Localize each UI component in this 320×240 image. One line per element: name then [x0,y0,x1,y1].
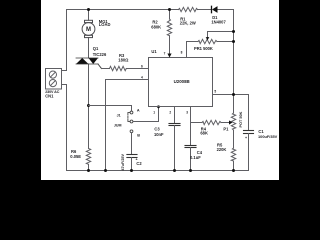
svg-text:68K: 68K [200,131,208,136]
svg-text:PR1 500K: PR1 500K [194,46,213,51]
IC U1 U2008B box [149,58,213,107]
node dot PR1 wiper rail [232,30,235,33]
node dot pin5 rail [232,93,235,96]
wire C4 to ground [190,148,192,171]
svg-text:U1: U1 [151,49,157,54]
svg-text:J1: J1 [117,113,121,117]
capacitor C1 100uF electrolytic [244,131,254,134]
svg-text:1: 1 [153,110,155,114]
wire P1 to R5 [233,130,235,148]
motor MG1 [82,20,95,37]
svg-text:2: 2 [169,110,171,114]
svg-text:220K: 220K [217,147,227,152]
triac Q1 TIC226 [76,58,102,69]
svg-text:10nF: 10nF [154,132,164,137]
wire motor to triac [88,38,90,58]
wire right rail [233,10,235,114]
pin7 arrow into box [167,54,171,58]
wire pin5 supply [213,94,249,96]
wire C1 drop [248,95,250,131]
capacitor C2 47uF electrolytic [127,155,137,158]
resistor R1 22K 2W [179,7,198,11]
svg-text:180Ω: 180Ω [118,58,129,63]
jumper J1 [128,111,133,133]
wire sense to jumper A [89,106,132,112]
wire sense node to ground rail [88,164,90,170]
resistor R5 220K [231,148,235,161]
svg-text:7: 7 [164,52,166,56]
node dot C2 ground [130,169,133,172]
resistor R2 680K sync [167,10,171,56]
node dot motor top [87,8,90,11]
svg-text:C2: C2 [136,161,142,166]
capacitor C4 0.1uF [185,146,196,148]
svg-text:8: 8 [181,51,183,55]
svg-text:0.05E: 0.05E [70,154,81,159]
wire R5 to ground [233,161,235,171]
svg-text:P1: P1 [223,126,229,131]
potentiometer P1 50K body [231,113,235,130]
svg-text:A: A [137,108,140,112]
wire pin4 ground drop [106,80,149,171]
resistor R4 68K wiper feed [191,120,230,124]
wire C2 to ground [131,158,133,171]
node dot C3 ground [173,169,176,172]
svg-text:CN1: CN1 [45,94,54,99]
svg-text:47uF/25V: 47uF/25V [121,153,125,170]
svg-text:680K: 680K [151,25,161,30]
svg-text:4: 4 [141,75,143,79]
resistor R3 gate wire [102,66,149,70]
svg-text:1N4007: 1N4007 [211,19,226,24]
node dot C4 ground [189,169,192,172]
wire jumper mid to pin1 [133,107,159,122]
wire C1 to ground corner [248,134,250,171]
svg-text:POT 50K: POT 50K [239,111,243,127]
wire top rail R1 to D1 [198,9,212,11]
wire pin3 drop [190,107,192,146]
diode D1 1N4007 [212,6,218,13]
P1 wiper arrow [229,120,232,124]
svg-text:6: 6 [141,65,143,69]
svg-text:TIC226: TIC226 [93,52,107,57]
svg-text:JUM: JUM [114,123,122,127]
PR1 wiper arrow [206,37,210,40]
wire bottom rail [67,170,249,172]
node dot R2 top [168,8,171,11]
node dot pin4 ground [104,169,107,172]
svg-text:Q1: Q1 [93,46,99,51]
svg-text:3: 3 [186,110,188,114]
svg-text:+: + [245,136,247,140]
terminal block CN1 [46,69,67,90]
svg-text:5: 5 [214,90,216,94]
node dot sense junction [87,104,90,107]
wire left rail upper [66,10,68,71]
capacitor C3 10nF [169,124,180,126]
wire jumper B to C2 [131,133,133,155]
svg-text:B: B [137,133,140,137]
wire left rail lower [66,85,68,171]
potentiometer PR1 500K [187,32,234,58]
wire pin2 drop [174,107,176,124]
wire top rail left [67,9,179,11]
resistor R6 shunt [86,148,90,164]
svg-text:LOAD: LOAD [99,22,111,27]
svg-text:U2008B: U2008B [174,79,190,84]
wire top rail D1 to corner [218,9,234,11]
node dot PR1 end rail [232,40,235,43]
wire motor drop [88,10,90,21]
wire triac to sense node [88,64,90,148]
node dot R5 ground [232,169,235,172]
svg-text:M: M [86,27,91,33]
svg-text:0.1uF: 0.1uF [190,155,201,160]
svg-text:C3: C3 [154,127,160,132]
wire C3 to ground [174,126,176,171]
svg-text:100uF/35V: 100uF/35V [258,134,278,139]
svg-text:22K, 2W: 22K, 2W [180,21,196,26]
node dot R6 ground [87,169,90,172]
node dot pin1 [157,105,160,108]
svg-text:R6: R6 [71,149,77,154]
